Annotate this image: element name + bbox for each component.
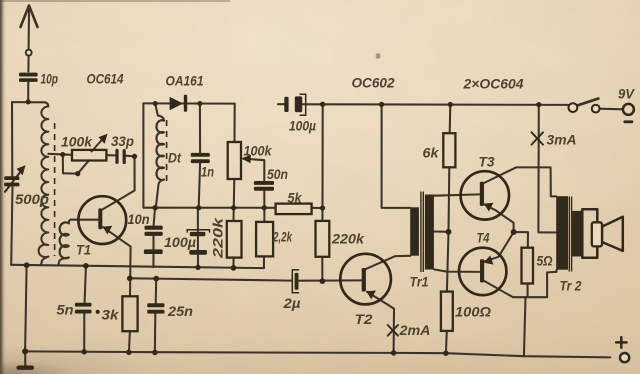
svg-text:1n: 1n bbox=[201, 164, 214, 180]
svg-text:220k: 220k bbox=[331, 231, 365, 247]
svg-text:100k: 100k bbox=[61, 134, 93, 150]
svg-text:T2: T2 bbox=[355, 311, 373, 327]
svg-text:Tr1: Tr1 bbox=[410, 274, 429, 290]
svg-text:220k: 220k bbox=[210, 216, 226, 259]
svg-text:50n: 50n bbox=[267, 166, 288, 182]
svg-text:100k: 100k bbox=[244, 143, 273, 159]
svg-text:Dt: Dt bbox=[168, 150, 182, 166]
svg-text:100µ: 100µ bbox=[289, 118, 316, 134]
svg-text:500p: 500p bbox=[15, 191, 49, 207]
svg-text:2×OC604: 2×OC604 bbox=[463, 76, 524, 92]
svg-text:25n: 25n bbox=[167, 303, 193, 319]
svg-text:OC614: OC614 bbox=[87, 71, 124, 87]
svg-text:6k: 6k bbox=[423, 145, 440, 161]
svg-text:Tr 2: Tr 2 bbox=[560, 278, 582, 294]
svg-text:3mA: 3mA bbox=[547, 132, 577, 148]
svg-text:33p: 33p bbox=[111, 133, 134, 149]
svg-text:OC602: OC602 bbox=[352, 75, 395, 91]
svg-text:5Ω: 5Ω bbox=[537, 253, 553, 269]
svg-text:100Ω: 100Ω bbox=[455, 304, 491, 320]
svg-text:100µ: 100µ bbox=[164, 234, 196, 250]
svg-text:T3: T3 bbox=[479, 154, 495, 170]
svg-text:10n: 10n bbox=[128, 211, 150, 227]
svg-text:3k: 3k bbox=[102, 307, 120, 323]
svg-text:5n: 5n bbox=[57, 302, 74, 318]
svg-text:9V: 9V bbox=[618, 86, 636, 102]
svg-text:OA161: OA161 bbox=[166, 73, 204, 89]
svg-text:T4: T4 bbox=[477, 230, 490, 246]
svg-text:2,2k: 2,2k bbox=[272, 229, 293, 245]
svg-text:T1: T1 bbox=[76, 242, 91, 258]
svg-text:5k: 5k bbox=[288, 190, 303, 206]
svg-text:10p: 10p bbox=[41, 71, 59, 87]
svg-text:2mA: 2mA bbox=[398, 322, 430, 338]
svg-text:2µ: 2µ bbox=[282, 295, 300, 311]
